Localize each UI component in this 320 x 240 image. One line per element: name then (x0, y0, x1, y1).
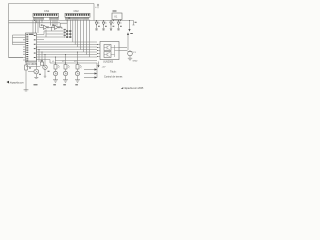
svg-text:CN1: CN1 (44, 9, 50, 13)
IC U3 left pin nodes (97, 44, 98, 57)
connector J1 pin comb left group (34, 17, 44, 20)
connector J1 body (33, 13, 59, 17)
net stub tick (59, 26, 61, 28)
relay K1 body (112, 13, 122, 20)
IC U2 inner label (29, 34, 34, 35)
wire bottom-left rail y61 (26, 61, 36, 65)
gate U1B label (52, 25, 54, 26)
gate U1A inverter (44, 25, 48, 29)
node chain feed 3 (77, 52, 78, 53)
label Q1 ground (34, 84, 38, 85)
capacitor C1 (128, 50, 137, 58)
svg-text:hispavila.com 2005: hispavila.com 2005 (124, 88, 144, 90)
label right stub (135, 21, 137, 24)
relay K1 top label (113, 11, 117, 12)
svg-text:GND: GND (133, 61, 138, 63)
connector pin label smudge J2 (66, 18, 90, 20)
node U1A out (51, 27, 52, 28)
wire J2 pin drop x72.8 (72, 20, 74, 42)
diode arrow chain2 (68, 65, 70, 68)
svg-text:CN2: CN2 (74, 9, 80, 13)
IC U3 internal right rail (114, 45, 116, 57)
wire VCC rail right drop (93, 4, 95, 21)
LED D4 (117, 21, 122, 31)
wire U1B output (60, 27, 62, 29)
node chain1 (55, 62, 56, 63)
node chain feed 1 (55, 57, 56, 58)
wire U2 lower-left pins to rail (9, 57, 24, 59)
wire bus B horizontal (9, 22, 61, 24)
LED D2 (102, 21, 107, 31)
wire U1A output (49, 27, 52, 31)
label Q1b (39, 73, 41, 76)
node chain2 (65, 62, 66, 63)
node chain3 (77, 62, 78, 63)
gate U1B bubble (58, 27, 59, 28)
resistor R4 (64, 65, 67, 70)
wire long vertical x83.5 (83, 20, 85, 52)
wire J1 pin drops to U2 top (33, 20, 38, 33)
power flag +5V (95, 4, 99, 9)
label J2 pin1 (68, 17, 70, 20)
label Q2 (48, 70, 50, 73)
wire J2 pin drop x75.2 (74, 20, 76, 45)
wire long vertical x80.5 (80, 20, 82, 50)
IC U3 internal block b (104, 52, 111, 58)
label Q1 (29, 67, 31, 70)
IC U3 internal wires (111, 48, 119, 55)
wire U3 output y47 (119, 47, 127, 49)
gate U1A bubble (47, 27, 48, 28)
title text line 3 (121, 87, 123, 88)
IC U3 left pin stubs (97, 45, 100, 57)
connector J2 body (65, 13, 90, 17)
transistor Q2 (43, 65, 47, 77)
node J2 pin1 on bus (67, 20, 68, 21)
wire chain feed x55.5 (55, 57, 57, 65)
node chain feed 2 (65, 54, 66, 55)
wire bottom cluster verticals (36, 47, 45, 69)
wire U2 right bus y52 (37, 51, 98, 53)
logo bottom-left (7, 81, 24, 85)
transistor Q4 (63, 69, 67, 80)
net arrow label (130, 32, 133, 35)
svg-text:+5V: +5V (102, 67, 106, 69)
wire U2 right bus y47 (37, 46, 98, 48)
svg-text:hispavila.com: hispavila.com (10, 82, 24, 84)
LED D3 (110, 21, 115, 31)
resistor pack RP1 row2 (46, 32, 71, 35)
net flag arrow up x128 (127, 35, 129, 50)
wire chain feed x77.5 (77, 52, 79, 65)
gate U1B inverter (55, 25, 59, 29)
wire relay K1 pins (114, 20, 121, 21)
ground R1 (24, 90, 29, 91)
wire gate input A (40, 20, 55, 28)
net flag arrow down x129.5 (129, 21, 131, 30)
label ground chain2 (63, 84, 66, 85)
svg-text:Control de trenes: Control de trenes (104, 76, 123, 79)
IC U3 body (100, 42, 119, 60)
output arrow 3 (84, 76, 97, 78)
wire VCC top rail left vertical (8, 4, 10, 58)
LED D1 (95, 21, 100, 31)
connector J2 pin comb (66, 17, 89, 20)
connector pin label smudge J1 (34, 18, 59, 20)
wire bus A horizontal (9, 20, 134, 22)
wire U2 right bus y42 (37, 41, 98, 43)
connector J1 pin comb right group (50, 17, 59, 20)
wire chain rail left drop (49, 60, 51, 64)
node bus junctions (34, 20, 130, 21)
ground Q3 (53, 80, 58, 82)
resistor R3 (54, 65, 57, 70)
ground below C1 (128, 58, 132, 60)
wire U2 right bus y59.5 (37, 60, 98, 61)
transistor Q6 (75, 69, 79, 80)
resistor R1 (25, 65, 28, 70)
IC U2 pin-name marks right (34, 35, 36, 58)
resistor pack RP1 row3 (46, 35, 71, 38)
resistor R5 (76, 65, 79, 70)
wire chain feed x65.5 (65, 55, 67, 65)
power flag arrow down (97, 62, 106, 69)
transistor Q3 (53, 69, 57, 80)
IC U3 internal block a marks (104, 45, 110, 50)
wire right stub x133.5 (132, 21, 134, 26)
wire jumper feed vertical (45, 30, 47, 38)
wire connector drop x97 (96, 63, 98, 78)
wire U2 right bus y37 (37, 36, 47, 38)
output arrow 1 (84, 68, 97, 70)
gate U1A label (41, 25, 43, 26)
wire R1 down (25, 70, 27, 90)
label ground chain1 (53, 84, 56, 85)
diode arrow chain3 (80, 65, 82, 68)
ground Q6 (75, 80, 80, 82)
wire long vertical x86.5 (86, 20, 88, 55)
wire J1 pin drops to bus (35, 20, 43, 23)
wire U2 right bus y34.5 (37, 31, 52, 35)
wire J1 right pins to gates (51, 20, 58, 28)
wire U2 right bus y44.5 (37, 44, 98, 46)
wire J2 pin1 bend (60, 21, 67, 27)
wire bottom cluster horizontals (26, 67, 40, 72)
node cluster junctions (36, 47, 46, 56)
label X1 (41, 59, 43, 62)
wire J2 pin drop x77.6 (77, 20, 79, 47)
wire chains top rail y63 (50, 62, 97, 64)
wire U3 output y50 (119, 50, 128, 52)
IC U2 body (26, 33, 37, 62)
wire U2 right bus y54.5 (37, 54, 98, 56)
wire J2 pin drop x67.2 (66, 20, 68, 38)
component X1 small box (40, 62, 43, 65)
IC U2 pin-name marks left (26, 34, 28, 61)
wire U2 right bus y39.5 (37, 39, 45, 41)
IC U3 internal block b marks (104, 52, 110, 57)
wire VCC top rail horizontal (9, 3, 95, 5)
wire long vertical x89.5 (89, 20, 91, 57)
wire U2 right bus y57 (37, 56, 98, 58)
transistor Q1 (34, 69, 39, 78)
wire U2 right bus y49.5 (37, 49, 98, 51)
label ground chain3 (75, 84, 78, 85)
wire U2 left pin to rail (13, 35, 24, 45)
diode arrow chain1 (58, 65, 60, 68)
IC U3 internal block a (104, 45, 111, 51)
resistor pack RP1 row1 (52, 29, 72, 32)
output arrow 2 (84, 72, 97, 74)
IC U2 left pin stubs (23, 35, 26, 60)
wire J2 pin drop x70.3 (69, 20, 71, 38)
svg-text:ULN2003: ULN2003 (103, 61, 114, 64)
wire ground rail bottom-left (9, 57, 24, 59)
svg-text:Titulo:: Titulo: (110, 71, 117, 74)
ground Q4 (63, 80, 68, 82)
